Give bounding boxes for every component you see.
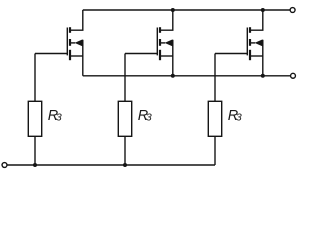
svg-text:3: 3 [56,111,62,123]
svg-text:3: 3 [236,111,242,123]
svg-text:3: 3 [146,111,152,123]
